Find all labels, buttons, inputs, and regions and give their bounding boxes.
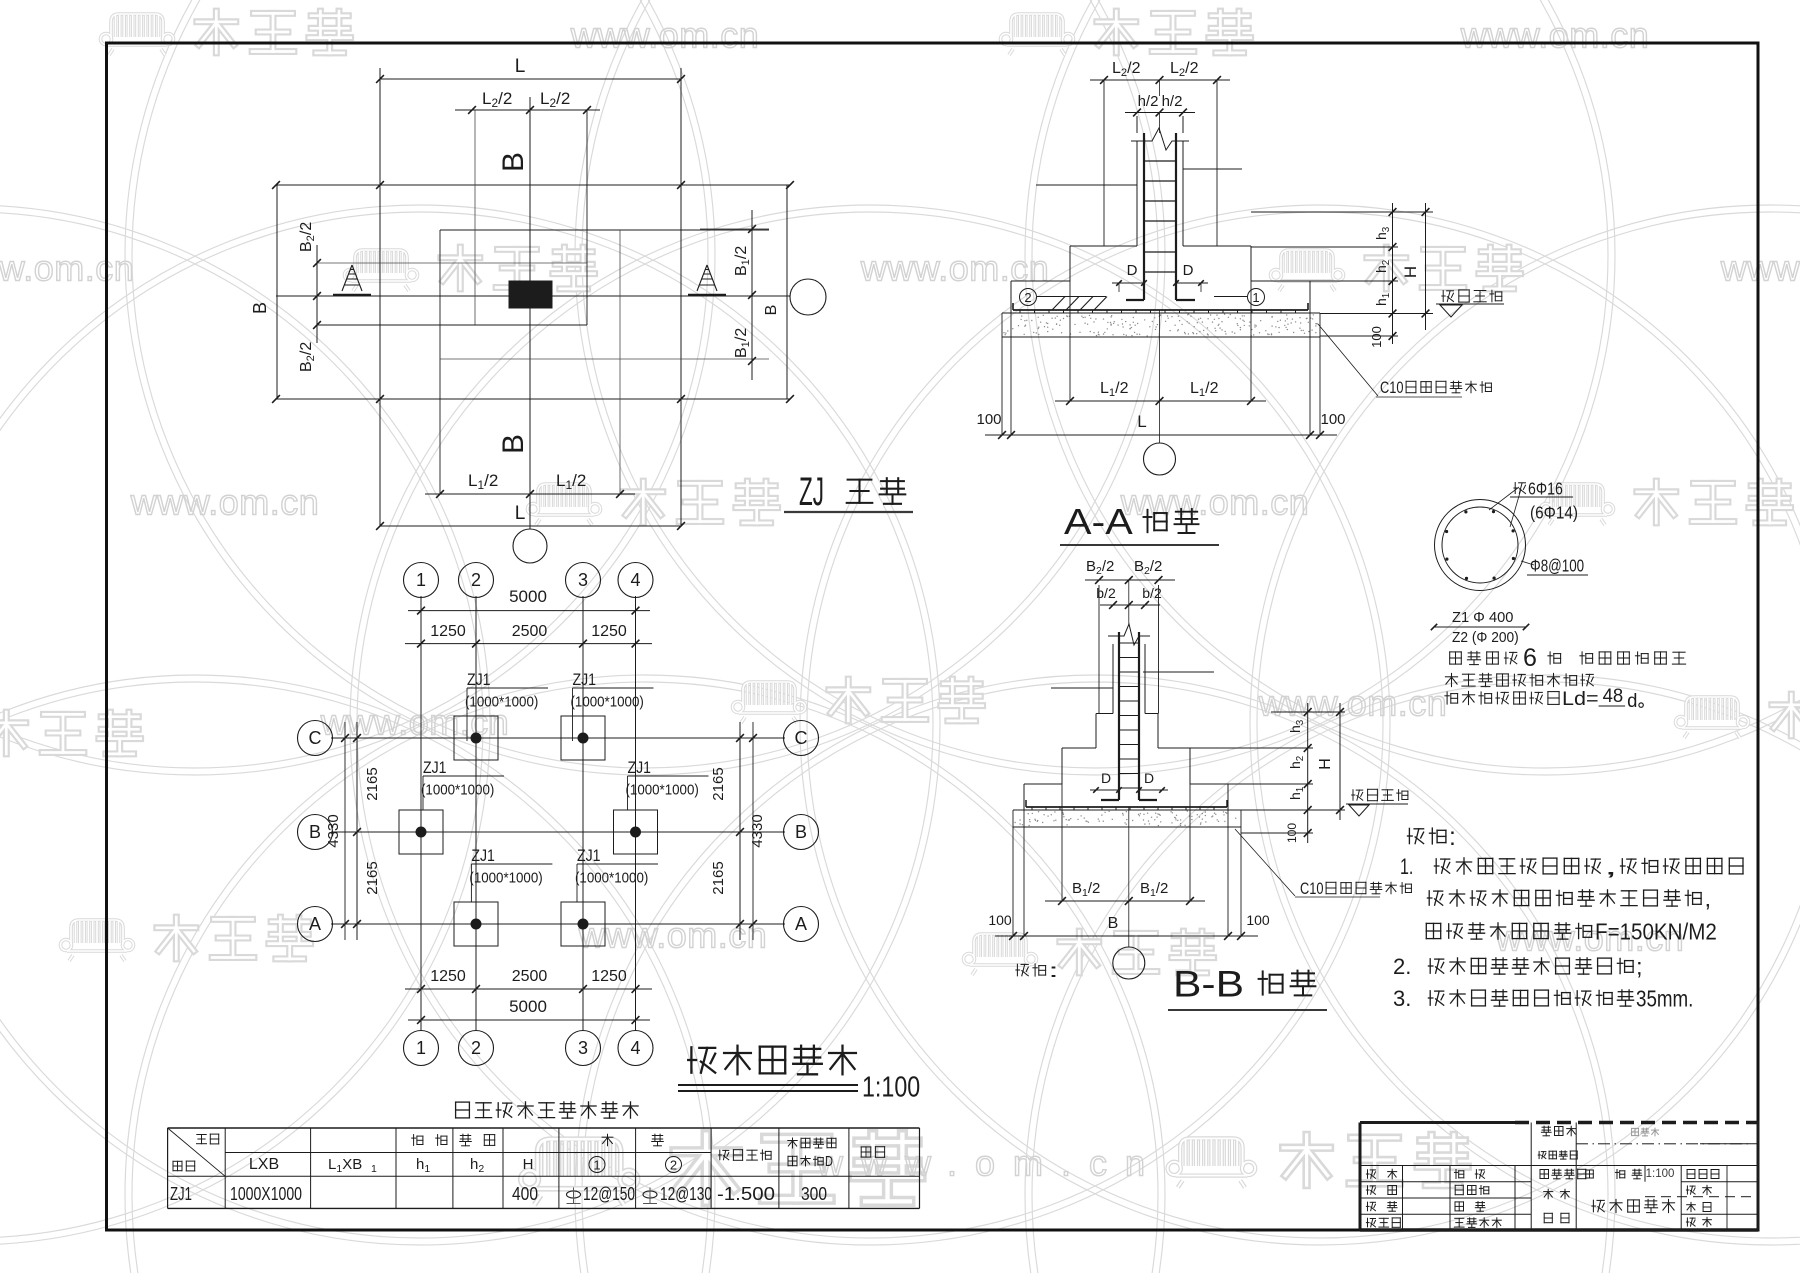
svg-text:h/2: h/2 bbox=[1138, 93, 1159, 110]
svg-text:1:100: 1:100 bbox=[862, 1072, 920, 1104]
svg-text:L: L bbox=[1137, 412, 1146, 431]
svg-text:ZJ1: ZJ1 bbox=[467, 670, 491, 689]
svg-text:6: 6 bbox=[1523, 644, 1537, 672]
svg-text:2: 2 bbox=[670, 1158, 677, 1173]
svg-text:ZJ1: ZJ1 bbox=[573, 670, 597, 689]
svg-text:,: , bbox=[1705, 886, 1712, 912]
svg-text:www.om.cn: www.om.cn bbox=[1720, 248, 1800, 289]
svg-text:B: B bbox=[309, 822, 321, 842]
svg-text:1: 1 bbox=[416, 1038, 426, 1058]
svg-text:L1/2: L1/2 bbox=[1190, 380, 1219, 399]
svg-text:1250: 1250 bbox=[430, 623, 466, 640]
svg-text:5000: 5000 bbox=[509, 587, 547, 606]
svg-text:(1000*1000): (1000*1000) bbox=[571, 694, 644, 710]
svg-text:1250: 1250 bbox=[430, 968, 466, 985]
svg-text:2: 2 bbox=[471, 570, 481, 590]
svg-text:12@150: 12@150 bbox=[583, 1184, 635, 1204]
svg-text:ZJ1: ZJ1 bbox=[628, 758, 652, 777]
svg-text:D: D bbox=[1183, 262, 1194, 279]
ZJ footing plan detail (ZJ da yang) top-left bbox=[276, 184, 790, 186]
svg-text:1250: 1250 bbox=[591, 968, 627, 985]
svg-text:(1000*1000): (1000*1000) bbox=[575, 870, 648, 886]
svg-text:D: D bbox=[825, 1154, 833, 1170]
svg-text:5000: 5000 bbox=[509, 997, 547, 1016]
svg-text:L1/2: L1/2 bbox=[468, 471, 498, 492]
svg-text:h/2: h/2 bbox=[1162, 93, 1183, 110]
svg-text:H: H bbox=[1401, 266, 1420, 278]
svg-text:3: 3 bbox=[578, 570, 588, 590]
svg-text:LXB: LXB bbox=[249, 1156, 279, 1173]
svg-text:L1XB: L1XB bbox=[328, 1156, 362, 1175]
notes (shuoming) text block bbox=[1408, 828, 1424, 843]
svg-text:Φ8@100: Φ8@100 bbox=[1530, 556, 1584, 576]
svg-text:D: D bbox=[1144, 770, 1154, 786]
svg-text:A: A bbox=[795, 914, 807, 934]
svg-text:B: B bbox=[795, 822, 807, 842]
svg-text:L: L bbox=[515, 503, 526, 524]
svg-text:L1/2: L1/2 bbox=[556, 471, 586, 492]
watermark layer (om.cn arcs, sofa logos, text) bbox=[0, 0, 715, 775]
B-B section of stepped footing bbox=[1085, 579, 1175, 581]
svg-text:D: D bbox=[1127, 262, 1138, 279]
svg-text:ZJ1: ZJ1 bbox=[423, 758, 447, 777]
svg-text:www.om.cn: www.om.cn bbox=[860, 248, 1050, 289]
svg-text:2165: 2165 bbox=[364, 861, 381, 894]
svg-text:Ld=: Ld= bbox=[1562, 689, 1599, 710]
svg-text:B: B bbox=[250, 302, 270, 314]
svg-text:,: , bbox=[1604, 854, 1618, 880]
svg-text:(1000*1000): (1000*1000) bbox=[465, 694, 538, 710]
svg-text:1: 1 bbox=[416, 570, 426, 590]
svg-text:B: B bbox=[497, 152, 530, 172]
svg-text:A: A bbox=[309, 914, 321, 934]
svg-text:400: 400 bbox=[512, 1184, 538, 1204]
svg-text:1250: 1250 bbox=[591, 623, 627, 640]
svg-text:L1/2: L1/2 bbox=[1100, 380, 1129, 399]
foundation plan 1:100 with grid axes 1-4 / A-C bbox=[420, 596, 422, 1031]
svg-text:H: H bbox=[523, 1156, 534, 1173]
svg-text:-1.500: -1.500 bbox=[717, 1184, 775, 1204]
svg-text:300: 300 bbox=[801, 1184, 827, 1204]
svg-text:B-B: B-B bbox=[1173, 963, 1244, 1004]
svg-text:C10: C10 bbox=[1380, 378, 1404, 397]
round column rebar section detail bbox=[1435, 500, 1526, 591]
svg-text:www.om.cn: www.om.cn bbox=[130, 482, 320, 523]
svg-text:D: D bbox=[1101, 770, 1111, 786]
svg-text:B: B bbox=[1108, 915, 1119, 932]
svg-text:(1000*1000): (1000*1000) bbox=[469, 870, 542, 886]
svg-text:B: B bbox=[763, 305, 780, 316]
svg-text:d: d bbox=[1627, 691, 1637, 712]
svg-text:ZJ1: ZJ1 bbox=[577, 846, 601, 865]
svg-text:L: L bbox=[515, 56, 526, 77]
svg-text:4330: 4330 bbox=[749, 814, 766, 847]
svg-text:3: 3 bbox=[578, 1038, 588, 1058]
svg-text:100: 100 bbox=[1369, 326, 1384, 348]
svg-text:100: 100 bbox=[988, 912, 1012, 928]
svg-text:(1000*1000): (1000*1000) bbox=[626, 782, 699, 798]
svg-text:C: C bbox=[795, 728, 808, 748]
svg-text:L2/2: L2/2 bbox=[482, 89, 512, 110]
svg-text:1.: 1. bbox=[1400, 854, 1413, 879]
svg-text:48: 48 bbox=[1603, 686, 1624, 707]
svg-text:1: 1 bbox=[371, 1163, 377, 1175]
svg-text:4330: 4330 bbox=[325, 814, 342, 847]
svg-text:6Φ16: 6Φ16 bbox=[1528, 479, 1563, 499]
svg-text:2165: 2165 bbox=[364, 767, 381, 800]
svg-text:C10: C10 bbox=[1300, 879, 1324, 898]
svg-text:B: B bbox=[497, 434, 530, 454]
A-A section of stepped footing bbox=[1090, 79, 1230, 81]
svg-text:ZJ: ZJ bbox=[799, 470, 824, 514]
svg-text:2.: 2. bbox=[1393, 954, 1411, 979]
rebar schedule table bbox=[168, 1127, 920, 1129]
svg-text:;: ; bbox=[1636, 954, 1643, 980]
svg-text:100: 100 bbox=[1246, 912, 1270, 928]
svg-text:100: 100 bbox=[976, 411, 1001, 428]
svg-text:(6Φ14): (6Φ14) bbox=[1530, 503, 1578, 523]
svg-text:2500: 2500 bbox=[512, 968, 548, 985]
svg-text:L2/2: L2/2 bbox=[1170, 60, 1199, 79]
svg-text:www.om.cn: www.om.cn bbox=[1460, 15, 1650, 56]
svg-text:Z2 (Φ 200): Z2 (Φ 200) bbox=[1452, 630, 1519, 646]
svg-text:F=150KN/M2: F=150KN/M2 bbox=[1595, 919, 1717, 945]
svg-text:2: 2 bbox=[1024, 290, 1031, 305]
svg-text:ZJ1: ZJ1 bbox=[471, 846, 495, 865]
svg-text:1: 1 bbox=[593, 1158, 600, 1173]
svg-text:2165: 2165 bbox=[710, 861, 727, 894]
svg-text:12@130: 12@130 bbox=[660, 1184, 712, 1204]
svg-text:www.om.cn: www.om.cn bbox=[0, 248, 134, 289]
svg-text:4: 4 bbox=[630, 1038, 640, 1058]
svg-text:2500: 2500 bbox=[512, 623, 548, 640]
svg-text:Z1 Φ 400: Z1 Φ 400 bbox=[1452, 610, 1513, 626]
svg-text:L2/2: L2/2 bbox=[1112, 60, 1141, 79]
svg-text:1000X1000: 1000X1000 bbox=[230, 1184, 302, 1204]
svg-text:www.om.cn: www.om.cn bbox=[816, 1143, 1163, 1184]
svg-text:L2/2: L2/2 bbox=[540, 89, 570, 110]
svg-text:C: C bbox=[309, 728, 322, 748]
svg-text::: : bbox=[1048, 961, 1059, 982]
svg-text:100: 100 bbox=[1320, 411, 1345, 428]
svg-text:www.om.cn: www.om.cn bbox=[578, 915, 768, 956]
svg-text:www.om.cn: www.om.cn bbox=[570, 15, 760, 56]
svg-text:35mm.: 35mm. bbox=[1636, 986, 1693, 1012]
svg-text:www.om.cn: www.om.cn bbox=[1258, 683, 1448, 724]
svg-text::: : bbox=[1449, 824, 1456, 851]
svg-text:(1000*1000): (1000*1000) bbox=[421, 782, 494, 798]
svg-text:2: 2 bbox=[471, 1038, 481, 1058]
svg-text:4: 4 bbox=[630, 570, 640, 590]
svg-text:3.: 3. bbox=[1393, 986, 1411, 1011]
svg-text:1:100: 1:100 bbox=[1646, 1168, 1675, 1180]
svg-text:b/2: b/2 bbox=[1142, 585, 1162, 601]
svg-text:100: 100 bbox=[1285, 823, 1299, 843]
svg-text:H: H bbox=[1317, 758, 1334, 770]
svg-text:A-A: A-A bbox=[1064, 502, 1133, 542]
title block bbox=[1360, 1121, 1515, 1124]
svg-text:2165: 2165 bbox=[710, 767, 727, 800]
svg-text:1: 1 bbox=[1252, 290, 1259, 305]
svg-text:ZJ1: ZJ1 bbox=[170, 1184, 192, 1204]
